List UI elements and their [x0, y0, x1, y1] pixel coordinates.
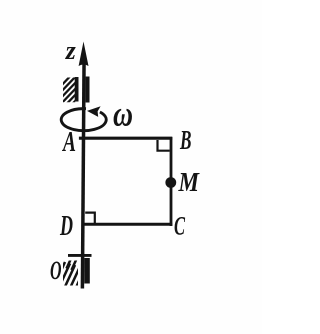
svg-text:z: z — [65, 36, 77, 65]
axis z (vertical shaft) — [82, 55, 84, 289]
top bearing right block — [86, 77, 90, 103]
side DC — [82, 223, 172, 226]
svg-text:M: M — [178, 167, 200, 197]
bottom bearing hatching — [53, 258, 85, 295]
svg-text:C: C — [174, 212, 185, 241]
side AB — [79, 137, 172, 140]
side BC — [170, 137, 173, 226]
svg-text:D: D — [59, 210, 73, 242]
bottom bearing cap — [68, 254, 92, 257]
omega rotation arc — [61, 109, 106, 131]
top bearing left block — [75, 77, 79, 102]
bottom bearing right block — [84, 258, 90, 284]
svg-text:O: O — [50, 256, 62, 285]
top bearing hatching — [58, 68, 78, 119]
svg-text:ω: ω — [113, 94, 133, 134]
svg-text:A: A — [62, 127, 76, 158]
right angle at D — [85, 213, 95, 223]
svg-text:B: B — [179, 125, 191, 155]
omega arrowhead — [87, 106, 101, 117]
right angle at B — [158, 140, 170, 151]
axis arrowhead — [79, 42, 89, 67]
point M (dot) — [165, 177, 176, 188]
